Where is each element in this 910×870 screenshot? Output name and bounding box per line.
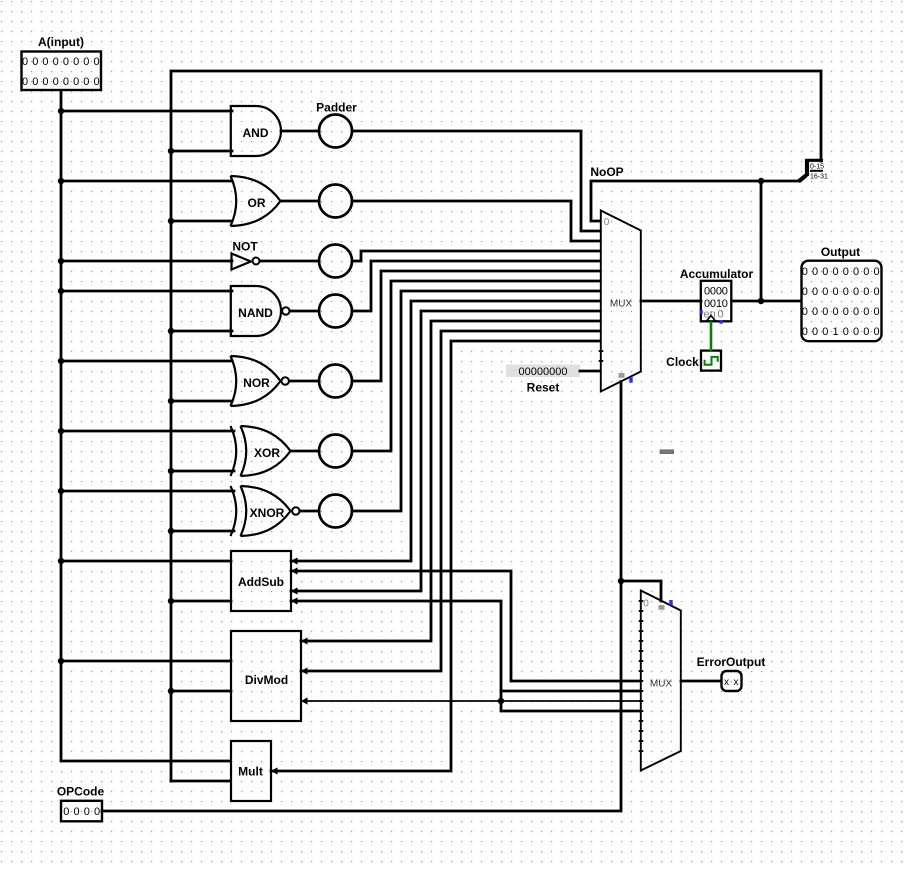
svg-text:0000: 0000 xyxy=(704,286,728,298)
svg-text:Padder: Padder xyxy=(316,101,357,115)
junction A bus at OR tap xyxy=(58,178,64,184)
wire A to DivMod input xyxy=(61,660,231,663)
svg-text:ErrorOutput: ErrorOutput xyxy=(697,655,766,669)
wire OR output to padder xyxy=(281,200,320,203)
wire AddSub sum to MUX input 8 xyxy=(291,301,600,561)
junction B bus at XOR tap xyxy=(168,468,174,474)
wire MUX1 output to Accumulator xyxy=(641,300,701,303)
wire DivMod error to MUX2 input 10 (1-bit) xyxy=(301,700,640,702)
gate NOT xyxy=(232,240,260,270)
wire AND output to padder xyxy=(281,130,319,133)
wire B to AND input xyxy=(171,150,232,153)
junction A bus at NAND tap xyxy=(58,288,64,294)
svg-text:NOT: NOT xyxy=(232,240,258,254)
junction B bus at NAND tap xyxy=(168,328,174,334)
gate XNOR xyxy=(231,486,300,536)
wire DivMod quotient to MUX input 10 xyxy=(301,321,600,641)
wire B to AddSub input xyxy=(171,600,231,603)
svg-text:MUX: MUX xyxy=(650,679,673,690)
svg-text:x: x xyxy=(724,677,729,688)
junction A bus at NOR tap xyxy=(58,358,64,364)
junction B bus at AND tap xyxy=(168,148,174,154)
svg-text:00000000: 00000000 xyxy=(802,286,884,298)
wire B to NAND input xyxy=(171,330,232,333)
wire DivMod remainder to MUX input 11 xyxy=(301,331,600,671)
svg-text:OPCode: OPCode xyxy=(57,785,105,799)
wire NoOP lane to MUX input 0 xyxy=(591,181,799,221)
padder circle P1 (AND) xyxy=(319,115,352,148)
wire NAND output to padder xyxy=(290,310,319,313)
wire padder P1 to MUX input 1 xyxy=(352,131,600,231)
junction A bus at XNOR tap xyxy=(58,488,64,494)
wire MUX2 output to ErrorOutput xyxy=(681,680,721,683)
wire A to XNOR input xyxy=(61,490,234,493)
wire AddSub borrow down riser xyxy=(291,601,640,711)
padder circle P7 (XNOR) xyxy=(319,495,352,528)
gate OR xyxy=(231,176,281,226)
svg-text:00010000: 00010000 xyxy=(802,326,884,338)
wire A to NOT input xyxy=(61,260,232,263)
padder circle P4 (NAND) xyxy=(319,295,352,328)
svg-text:NOR: NOR xyxy=(243,376,270,390)
subcircuit Mult xyxy=(231,741,278,801)
svg-text:A(input): A(input) xyxy=(38,35,84,49)
padder circle P2 (OR) xyxy=(319,185,352,218)
junction A bus at AND tap xyxy=(58,108,64,114)
svg-text:00000000: 00000000 xyxy=(802,266,884,278)
register Accumulator xyxy=(680,267,754,324)
junction A bus at DivMod tap xyxy=(58,658,64,664)
junction select branch to MUX2 xyxy=(618,578,624,584)
svg-text:0: 0 xyxy=(604,217,610,228)
svg-text:DivMod: DivMod xyxy=(245,673,288,687)
multiplexer MUX2 16:1 (error select) xyxy=(639,591,681,771)
junction accumulator output xyxy=(758,298,764,304)
output pin ErrorOutput xyxy=(697,655,766,691)
wire padder P2 to MUX input 2 xyxy=(352,201,600,241)
wire OPCode select to MUX1 select xyxy=(102,382,621,812)
wire B to DivMod input xyxy=(171,690,231,693)
wire B to OR input xyxy=(171,220,232,223)
wire A to AddSub input xyxy=(61,560,231,563)
wire AddSub diff to MUX input 9 xyxy=(291,311,600,591)
wire padder P7 to MUX input 7 xyxy=(352,291,600,511)
wire accumulator feedback loop top xyxy=(171,71,821,781)
wire Reset to MUX input 15 xyxy=(580,370,600,373)
wire XNOR output to padder xyxy=(300,510,319,513)
svg-text:XNOR: XNOR xyxy=(250,506,285,520)
wire padder P6 to MUX input 6 xyxy=(352,281,600,451)
wire B to XNOR input xyxy=(171,530,234,533)
junction NoOP / accumulator feedback xyxy=(758,178,764,184)
junction B bus at NOR tap xyxy=(168,398,174,404)
wire padder P4 to MUX input 4 xyxy=(352,261,600,311)
splitter (bit extender) 0-15 / 16-31 xyxy=(799,159,829,182)
junction B bus at AddSub tap xyxy=(168,598,174,604)
junction A bus at AddSub tap xyxy=(58,558,64,564)
junction error net xyxy=(498,698,504,704)
wire XOR output to padder xyxy=(291,450,320,453)
svg-text:x: x xyxy=(734,677,739,688)
svg-text:AND: AND xyxy=(243,126,269,140)
wire feedback vertical to accumulator output xyxy=(760,181,763,301)
padder circle P6 (XOR) xyxy=(319,435,352,468)
svg-text:Output: Output xyxy=(821,245,860,259)
wire A bus vertical with corner to Mult xyxy=(61,91,230,761)
svg-text:OR: OR xyxy=(248,196,266,210)
clock component xyxy=(666,351,721,371)
constant Reset 00000000 xyxy=(506,365,580,395)
svg-text:MUX: MUX xyxy=(610,299,633,310)
svg-text:NAND: NAND xyxy=(238,306,273,320)
junction B bus at OR tap xyxy=(168,218,174,224)
svg-text:0: 0 xyxy=(643,599,649,610)
wire padder P3 to MUX input 3 xyxy=(352,251,600,261)
svg-text:00000000: 00000000 xyxy=(22,76,104,88)
wire borrow branch to MUX2 input 9 xyxy=(501,690,640,693)
wire NOT output to padder xyxy=(260,260,319,263)
wire B to XOR input xyxy=(171,470,234,473)
subcircuit DivMod xyxy=(231,631,308,721)
wire B corner to Mult input xyxy=(171,780,230,783)
input pin OPCode 4-bit xyxy=(57,785,105,822)
padder circle P3 (NOT) xyxy=(319,245,352,278)
junction B bus at XNOR tap xyxy=(168,528,174,534)
svg-text:00000000: 00000000 xyxy=(22,56,104,68)
svg-text:0000: 0000 xyxy=(63,806,104,818)
wire A to XOR input xyxy=(61,430,234,433)
output pin Output 32-bit xyxy=(802,245,884,341)
gray dash mark xyxy=(660,450,674,454)
wire padder P5 to MUX input 5 xyxy=(352,271,600,381)
svg-text:Clock: Clock xyxy=(666,355,699,369)
subcircuit AddSub xyxy=(231,551,298,611)
wire A to NOR input xyxy=(61,360,232,363)
svg-text:XOR: XOR xyxy=(254,446,280,460)
wire Mult product to MUX input 12 xyxy=(271,341,600,771)
svg-text:00000000: 00000000 xyxy=(802,306,884,318)
junction B bus at DivMod tap xyxy=(168,688,174,694)
op-amp-style multiplexer MUX1 16:1 xyxy=(599,211,641,392)
wire select branch to MUX2 select xyxy=(621,581,661,601)
svg-text:NoOP: NoOP xyxy=(590,165,623,179)
wire B to NOR input xyxy=(171,400,232,403)
input pin A(input) 16-bit xyxy=(22,35,104,90)
gate NAND xyxy=(231,286,290,336)
gate AND xyxy=(231,106,281,156)
svg-text:AddSub: AddSub xyxy=(238,575,284,589)
svg-text:0: 0 xyxy=(718,309,724,321)
svg-text:Reset: Reset xyxy=(527,381,560,395)
svg-text:00000000: 00000000 xyxy=(519,366,568,378)
wire Accumulator output xyxy=(732,300,802,303)
svg-text:16-31: 16-31 xyxy=(810,174,828,181)
wire A to AND input xyxy=(61,110,232,113)
junction A bus at XOR tap xyxy=(58,428,64,434)
wire A to OR input xyxy=(61,180,232,183)
junction A bus at NOT tap xyxy=(58,258,64,264)
wire AddSub carry to MUX2 input 8 xyxy=(291,571,640,681)
gate NOR xyxy=(231,356,289,406)
svg-text:0-15: 0-15 xyxy=(810,164,824,171)
padder circle P5 (NOR) xyxy=(319,365,352,398)
wire A to NAND input xyxy=(61,290,232,293)
svg-text:Mult: Mult xyxy=(238,764,263,778)
gate XOR xyxy=(231,426,291,476)
wire clock to accumulator (1-bit, green) xyxy=(710,323,713,351)
wire NOR output to padder xyxy=(290,380,320,383)
svg-text:Accumulator: Accumulator xyxy=(680,267,754,281)
